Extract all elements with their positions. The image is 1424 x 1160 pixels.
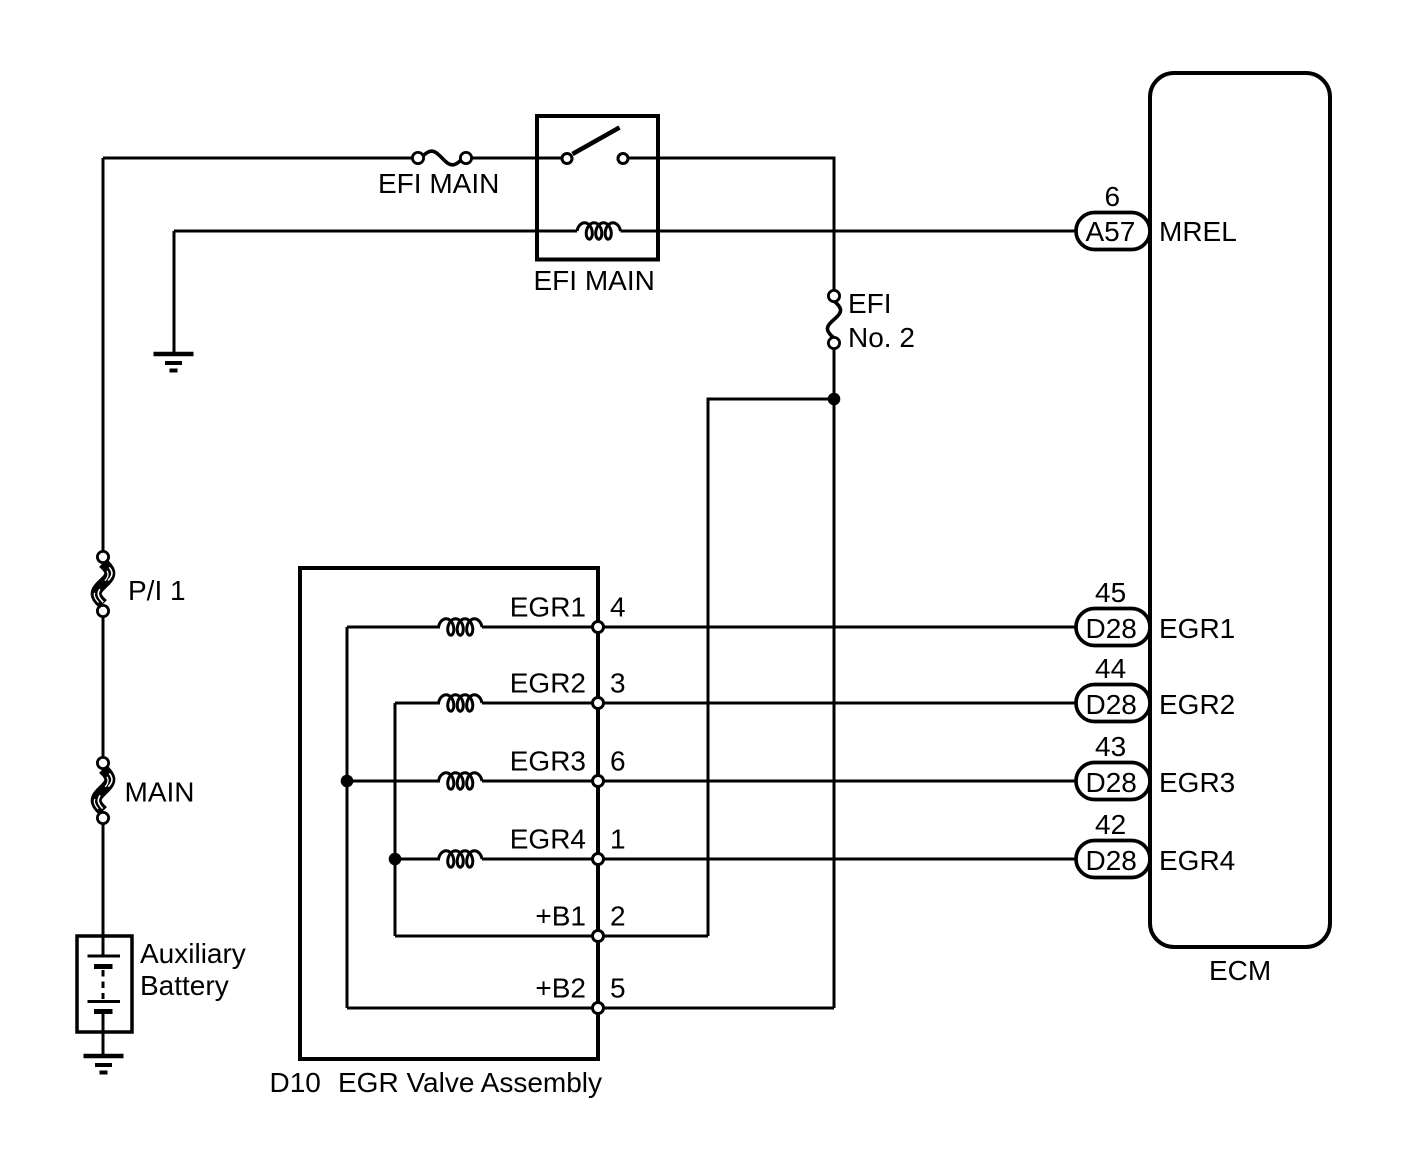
wire: EGR3 row — [347, 780, 1076, 783]
battery short plate bottom cell — [94, 1009, 113, 1014]
svg-text:EGR1: EGR1 — [1159, 613, 1235, 644]
wire: junction branch left and down to +B1 — [708, 399, 834, 936]
svg-text:EGR Valve Assembly: EGR Valve Assembly — [338, 1067, 602, 1098]
terminal: valve pin 4 (EGR1) — [593, 622, 604, 633]
fuse EFI No.2 wavy element — [828, 301, 841, 338]
svg-text:A57: A57 — [1086, 216, 1136, 247]
svg-text:EGR4: EGR4 — [510, 824, 586, 855]
wire: P/I 1 to MAIN fuse link — [102, 611, 105, 763]
relay switch contact circles — [562, 154, 572, 164]
svg-text:6: 6 — [1105, 181, 1121, 212]
wire: EFI No.2 fuse output down to +B2 corner — [833, 343, 836, 1008]
svg-text:6: 6 — [610, 746, 626, 777]
connector pill D28 row 42 — [1076, 841, 1150, 878]
svg-text:EGR2: EGR2 — [1159, 689, 1235, 720]
svg-text:EGR1: EGR1 — [510, 592, 586, 623]
battery dashed middle link — [102, 970, 105, 999]
svg-text:No. 2: No. 2 — [848, 322, 915, 353]
wire: relay coil output to pin A57 — [621, 230, 1077, 233]
ground: relay coil ground symbol — [154, 354, 194, 371]
svg-text:P/I 1: P/I 1 — [128, 575, 186, 606]
wire: EGR2 row — [395, 702, 1076, 705]
fuse P/I 1 terminal circles — [97, 551, 108, 562]
fuse EFI MAIN wavy element — [421, 151, 463, 165]
svg-text:EFI MAIN: EFI MAIN — [534, 265, 655, 296]
wire: EFI MAIN fuse to relay switch input contact — [466, 157, 567, 160]
svg-text:MAIN: MAIN — [125, 777, 195, 808]
fuse EFI No.2 terminal circles — [828, 290, 839, 301]
svg-text:44: 44 — [1095, 653, 1126, 684]
svg-text:D10: D10 — [270, 1067, 321, 1098]
battery Auxiliary Battery box — [77, 936, 132, 1032]
ground: battery ground symbol — [84, 1056, 124, 1073]
svg-text:+B1: +B1 — [535, 901, 586, 932]
terminal: valve pin 5 (+B2) — [593, 1003, 604, 1014]
terminal: valve pin 6 (EGR3) — [593, 776, 604, 787]
wire: inner bus vertical EGR2 to +B1 — [394, 703, 397, 936]
wire: MREL line from ground riser through relay coil — [174, 230, 577, 233]
connector pill D28 row 45 — [1076, 609, 1150, 646]
junction: EFI No.2 output node — [828, 393, 841, 406]
ECM box — [1150, 73, 1330, 947]
EGR4 coil winding — [439, 851, 483, 867]
junction: EGR4 tap on inner bus — [389, 853, 402, 866]
terminal: valve pin 3 (EGR2) — [593, 698, 604, 709]
svg-text:EFI MAIN: EFI MAIN — [378, 168, 499, 199]
wire: battery negative lead to ground — [102, 1012, 105, 1057]
wire: inner bus vertical EGR1 to +B2 — [346, 627, 349, 1008]
battery long plate top cell — [88, 955, 121, 958]
svg-text:3: 3 — [610, 668, 626, 699]
fuse MAIN ribbon element — [96, 769, 110, 811]
wire: EGR1 row — [347, 626, 1076, 629]
junction: EGR3 tap on inner bus — [341, 775, 354, 788]
svg-text:MREL: MREL — [1159, 216, 1237, 247]
fuse MAIN terminal circles — [97, 757, 108, 768]
wire: +B1 row — [395, 935, 708, 938]
connector pill D28 row 44 — [1076, 685, 1150, 722]
svg-text:EGR2: EGR2 — [510, 668, 586, 699]
terminal: valve pin 1 (EGR4) — [593, 854, 604, 865]
wire: battery feed top horizontal to EFI MAIN fuse — [103, 157, 418, 160]
relay switch arm — [573, 128, 620, 155]
svg-text:Battery: Battery — [140, 970, 229, 1001]
terminal: valve pin 2 (+B1) — [593, 931, 604, 942]
EGR valve assembly box D10 — [300, 568, 598, 1059]
wire: relay switch output right then down to EFI No.2 fuse — [623, 158, 834, 296]
svg-text:5: 5 — [610, 973, 626, 1004]
wire: relay coil ground riser — [173, 231, 176, 354]
relay coil winding — [577, 223, 621, 239]
EGR1 coil winding — [439, 619, 483, 635]
svg-text:EGR3: EGR3 — [1159, 767, 1235, 798]
svg-text:45: 45 — [1095, 577, 1126, 608]
svg-text:Auxiliary: Auxiliary — [140, 938, 246, 969]
battery long plate bottom cell — [88, 1000, 121, 1003]
svg-text:2: 2 — [610, 901, 626, 932]
svg-text:4: 4 — [610, 592, 626, 623]
EGR3 coil winding — [439, 773, 483, 789]
svg-text:43: 43 — [1095, 731, 1126, 762]
relay EFI MAIN box — [537, 116, 658, 260]
svg-text:D28: D28 — [1086, 845, 1137, 876]
svg-text:1: 1 — [610, 824, 626, 855]
fuse EFI MAIN terminal circles — [412, 152, 423, 163]
wire: EGR4 row — [395, 858, 1076, 861]
connector pill A57 — [1076, 213, 1150, 250]
svg-text:EGR3: EGR3 — [510, 746, 586, 777]
svg-text:42: 42 — [1095, 809, 1126, 840]
svg-text:EGR4: EGR4 — [1159, 845, 1235, 876]
svg-text:D28: D28 — [1086, 689, 1137, 720]
battery short plate top cell — [94, 964, 113, 969]
svg-text:D28: D28 — [1086, 613, 1137, 644]
wire: +B2 row — [347, 1007, 834, 1010]
wire: MAIN fuse to battery link — [102, 818, 105, 956]
wire: left riser down to P/I 1 fuse — [102, 158, 105, 557]
svg-text:+B2: +B2 — [535, 973, 586, 1004]
svg-text:D28: D28 — [1086, 767, 1137, 798]
connector pill D28 row 43 — [1076, 763, 1150, 800]
EGR2 coil winding — [439, 695, 483, 711]
fuse P/I 1 ribbon element — [96, 563, 110, 604]
svg-text:ECM: ECM — [1209, 955, 1271, 986]
svg-text:EFI: EFI — [848, 288, 892, 319]
